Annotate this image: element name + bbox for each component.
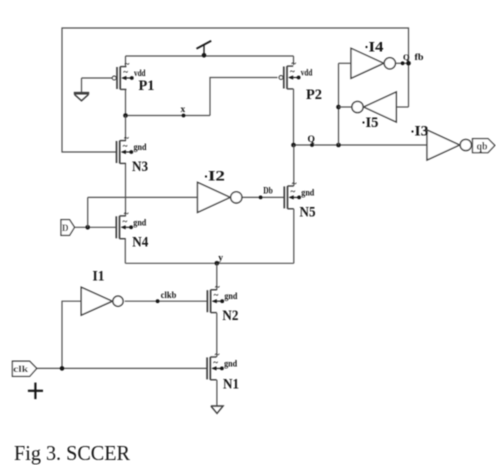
svg-text:gnd: gnd bbox=[134, 143, 148, 153]
svg-text:N4: N4 bbox=[132, 234, 148, 250]
svg-text:clkb: clkb bbox=[161, 291, 177, 301]
svg-text:Q: Q bbox=[403, 52, 410, 62]
svg-text:~: ~ bbox=[123, 216, 128, 226]
svg-text:~: ~ bbox=[123, 67, 128, 77]
svg-text:I5: I5 bbox=[366, 115, 379, 131]
svg-text:I4: I4 bbox=[369, 40, 384, 56]
svg-text:y: y bbox=[218, 254, 223, 264]
svg-text:D: D bbox=[62, 223, 69, 233]
svg-text:I2: I2 bbox=[208, 169, 225, 185]
svg-text:gnd: gnd bbox=[224, 359, 238, 369]
svg-text:N2: N2 bbox=[222, 308, 238, 324]
svg-text:P1: P1 bbox=[139, 78, 155, 94]
svg-text:~: ~ bbox=[291, 186, 296, 196]
svg-text:qb: qb bbox=[477, 141, 488, 152]
svg-text:P2: P2 bbox=[306, 87, 322, 103]
svg-text:N3: N3 bbox=[132, 159, 148, 175]
svg-text:N1: N1 bbox=[223, 377, 239, 393]
svg-text:Q: Q bbox=[308, 135, 315, 145]
svg-text:gnd: gnd bbox=[301, 188, 315, 198]
svg-text:N5: N5 bbox=[300, 205, 316, 221]
svg-text:~: ~ bbox=[214, 290, 219, 300]
svg-text:x: x bbox=[181, 105, 186, 115]
svg-text:I1: I1 bbox=[93, 269, 105, 285]
svg-text:gnd: gnd bbox=[224, 292, 238, 302]
svg-text:~: ~ bbox=[213, 357, 218, 367]
svg-text:vdd: vdd bbox=[301, 69, 313, 79]
svg-text:~: ~ bbox=[123, 141, 128, 151]
svg-text:fb: fb bbox=[415, 53, 424, 63]
svg-text:~: ~ bbox=[290, 67, 295, 77]
svg-text:Db: Db bbox=[263, 187, 273, 197]
svg-text:I3: I3 bbox=[415, 124, 429, 140]
svg-text:clk: clk bbox=[13, 365, 29, 375]
svg-text:gnd: gnd bbox=[133, 218, 147, 228]
svg-text:Fig 3. SCCER: Fig 3. SCCER bbox=[14, 441, 130, 465]
